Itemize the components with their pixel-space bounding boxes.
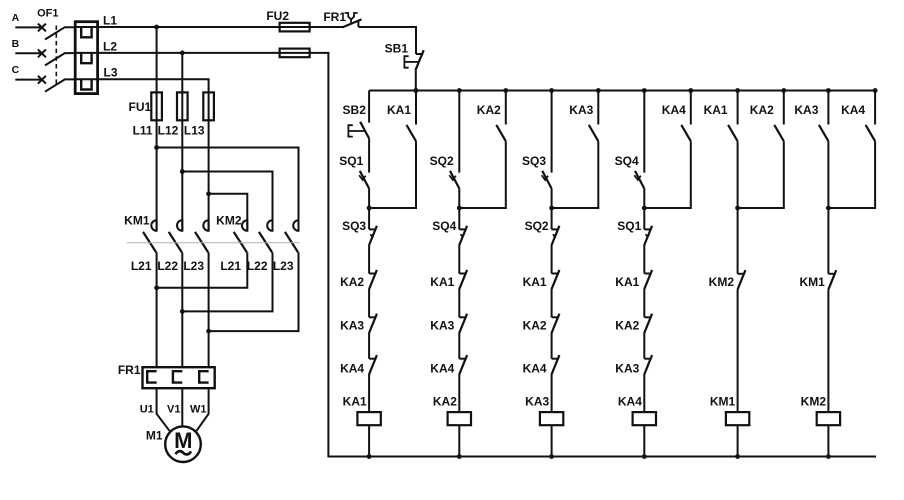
breaker OF1 mechanical linkage (dashed) <box>55 26 57 85</box>
wire phase A lead <box>15 26 41 28</box>
wire branch 2 left top <box>458 91 460 173</box>
relay contact KA1 (NO) <box>407 125 417 141</box>
wire branch 6 to coil <box>827 289 829 412</box>
svg-text:KA1: KA1 <box>704 103 728 117</box>
coil KM2 <box>817 412 840 425</box>
svg-text:FU1: FU1 <box>129 100 152 114</box>
wire SB2 to SQ1 <box>368 138 370 172</box>
relay contact KA2 (NC) <box>644 316 651 318</box>
svg-text:KA2: KA2 <box>433 395 457 409</box>
thermal relay FR1 heater element 1 <box>147 371 156 382</box>
breaker OF1 pole B blade <box>45 53 76 65</box>
relay contact KA2 (NO) <box>774 125 784 141</box>
junction control bus at x=690.8 <box>688 88 693 93</box>
limit switch SQ1 (NO) <box>360 171 369 189</box>
junction control bus at x=875.1 <box>873 88 878 93</box>
limit switch SQ2 (NC) <box>552 228 559 230</box>
relay contact KA3 (NC) <box>644 358 651 360</box>
svg-text:L23: L23 <box>273 259 294 273</box>
svg-text:KM2: KM2 <box>801 395 827 409</box>
motor M1 <box>165 426 201 462</box>
junction SB1 / control bus <box>413 88 418 93</box>
wire branch 3 left top <box>551 91 553 173</box>
wire branch 3 merge <box>552 207 600 209</box>
node branch 4 merge junction <box>642 206 647 211</box>
svg-text:KA1: KA1 <box>343 395 367 409</box>
svg-text:SB2: SB2 <box>343 103 367 117</box>
wire branch 4 to KA2 <box>643 289 645 318</box>
contactor contact KM2 (NC interlock) <box>738 273 745 275</box>
wire branch 4 merge <box>644 207 692 209</box>
wire branch 6 merge <box>828 207 876 209</box>
svg-text:L3: L3 <box>103 66 117 80</box>
junction branch 6 bottom <box>826 454 831 459</box>
svg-text:M1: M1 <box>146 429 163 443</box>
svg-text:KA4: KA4 <box>618 395 642 409</box>
limit switch SQ4 (NO) <box>635 171 644 189</box>
wire branch top at x=690.8 <box>690 91 692 125</box>
svg-text:L11: L11 <box>133 124 153 138</box>
svg-text:L21: L21 <box>131 259 152 273</box>
wire KM1 pole 1 to FR1 <box>156 252 158 367</box>
wire L3 (breaker to drop) <box>98 78 210 80</box>
fuse FU1 pole 1 <box>151 92 162 120</box>
wire coil KA4 to bottom bus <box>643 425 645 456</box>
wire below contact <box>505 141 507 208</box>
junction L12 crossover <box>180 169 185 174</box>
relay contact KA4 (NO) <box>866 125 876 141</box>
svg-text:SQ4: SQ4 <box>615 154 639 168</box>
svg-text:KA3: KA3 <box>615 362 639 376</box>
wire L13 drop <box>208 79 210 231</box>
junction control bus at x=598.3 <box>596 88 601 93</box>
thermal relay FR1 heater element 3 <box>199 371 208 382</box>
wire below contact <box>690 141 692 208</box>
wire phase B lead <box>15 52 41 54</box>
wire KM1 pole 3 to FR1 <box>208 252 210 367</box>
svg-text:L12: L12 <box>158 124 179 138</box>
node branch 5 merge junction <box>735 206 740 211</box>
contactor KM1 main pole 3 <box>203 220 208 231</box>
wire branch 3 to KA1 <box>551 245 553 274</box>
junction control bus at x=505.8 <box>503 88 508 93</box>
svg-text:KA4: KA4 <box>662 103 686 117</box>
node branch 3 merge junction <box>549 206 554 211</box>
svg-text:FR1: FR1 <box>118 363 141 377</box>
thermal relay FR1 heater element 2 <box>173 371 182 382</box>
contactor KM2 main pole 3 <box>293 220 298 231</box>
wire branch top at x=875.1 <box>874 91 876 125</box>
wire branch top at x=505.8 <box>505 91 507 125</box>
svg-text:KA3: KA3 <box>525 395 549 409</box>
coil KA3 <box>540 412 563 425</box>
pushbutton SB2 (NO start) <box>360 122 369 139</box>
svg-text:KA1: KA1 <box>523 275 547 289</box>
wire branch 4 to KA1 <box>643 245 645 274</box>
svg-text:KA3: KA3 <box>430 318 454 332</box>
contactor KM1 main pole 2 <box>177 220 182 231</box>
wire below contact <box>783 141 785 208</box>
relay contact KA2 (NC) <box>552 316 559 318</box>
wire branch 2 to coil <box>458 374 460 412</box>
junction pole 3 merge <box>206 329 211 334</box>
wire SB2 top <box>368 91 370 123</box>
relay contact KA1 (NC) <box>644 273 651 275</box>
wire branch 1 to KA3 <box>368 289 370 318</box>
fuse FU2b on L2 <box>280 49 310 58</box>
wire U1 to motor <box>157 389 170 430</box>
wire L12 drop <box>181 53 183 231</box>
junction control bus at x=783.8 <box>781 88 786 93</box>
svg-text:L2: L2 <box>103 40 117 54</box>
wire branch 2 to SQ4 <box>458 208 460 229</box>
svg-text:KA1: KA1 <box>615 275 639 289</box>
svg-text:SQ4: SQ4 <box>432 219 456 233</box>
svg-text:V1: V1 <box>167 404 180 416</box>
svg-text:KA1: KA1 <box>387 103 411 117</box>
svg-text:L21: L21 <box>220 259 241 273</box>
wire branch 2 to KA1 <box>458 245 460 274</box>
limit switch SQ1 (NC) <box>644 228 651 230</box>
junction pole 2 merge <box>180 309 185 314</box>
relay contact KA4 (NO) <box>681 125 691 141</box>
svg-text:KA2: KA2 <box>523 318 547 332</box>
thermal relay FR1 NC contact <box>342 19 361 27</box>
wire phase C lead <box>15 79 41 81</box>
contactor KM1 main pole 1 <box>151 220 156 231</box>
wire branch 1 to KA4 <box>368 333 370 359</box>
contactor contact KM1 (NC interlock) <box>828 273 835 275</box>
wire L11 drop <box>156 27 158 231</box>
junction L1 / L11 <box>154 25 159 30</box>
contactor KM2 main pole 1 <box>242 220 247 231</box>
svg-text:KA2: KA2 <box>477 103 501 117</box>
wire branch 3 to SQ2 <box>551 208 553 229</box>
svg-text:KM2: KM2 <box>709 275 735 289</box>
breaker OF1 pole A fixed contact (x mark) <box>38 24 46 32</box>
wire branch 5 to coil <box>737 289 739 412</box>
relay contact KA2 (NC) <box>369 273 376 275</box>
junction control bus at x=737.6 <box>735 88 740 93</box>
svg-text:KA2: KA2 <box>615 318 639 332</box>
wire below contact <box>597 141 599 208</box>
svg-text:KA4: KA4 <box>523 362 547 376</box>
junction L2 / L12 <box>180 51 185 56</box>
junction branch 2 bottom <box>457 454 462 459</box>
breaker OF1 pole C blade <box>45 79 76 91</box>
svg-text:KM1: KM1 <box>124 214 150 228</box>
svg-text:KM1: KM1 <box>710 395 736 409</box>
wire L1 (breaker to FU2 and FR1) <box>98 26 343 28</box>
wire branch 1 to SQ3 <box>368 208 370 229</box>
svg-text:KA2: KA2 <box>340 275 364 289</box>
wire L11 feed to KM2 pole 3 <box>157 148 299 231</box>
relay contact KA3 (NO) <box>819 125 829 141</box>
svg-text:SQ3: SQ3 <box>342 219 366 233</box>
wire coil KA2 to bottom bus <box>458 425 460 456</box>
junction control bus at x=644.3 <box>642 88 647 93</box>
relay contact KA1 (NC) <box>552 273 559 275</box>
relay contact KA3 (NC) <box>369 316 376 318</box>
svg-text:OF1: OF1 <box>37 8 58 20</box>
wire W1 to motor <box>197 389 209 430</box>
wire V1 to motor <box>181 389 183 426</box>
junction branch 3 bottom <box>549 454 554 459</box>
wire branch 4 to KA3 <box>643 333 645 359</box>
relay contact KA4 (NC) <box>552 358 559 360</box>
relay contact KA4 (NC) <box>459 358 466 360</box>
svg-text:KA4: KA4 <box>430 362 454 376</box>
wire branch top at x=416.0 <box>415 91 417 125</box>
junction branch 5 bottom <box>735 454 740 459</box>
wire branch 4 to SQ1 <box>643 208 645 229</box>
wire L2 (breaker to control rail) <box>98 52 330 54</box>
breaker OF1 pole C fixed contact (x mark) <box>38 76 46 84</box>
limit switch SQ3 (NO) <box>542 171 551 189</box>
svg-text:U1: U1 <box>140 404 154 416</box>
wire branch 2 to KA4 <box>458 333 460 359</box>
svg-text:KA2: KA2 <box>750 103 774 117</box>
wire KM2 pole 2 merge <box>183 252 272 311</box>
svg-text:KA4: KA4 <box>340 362 364 376</box>
wire branch 6 to KM1 interlock <box>827 208 829 274</box>
wire control top bus <box>369 90 876 92</box>
wire branch top at x=737.6 <box>737 91 739 125</box>
junction L11 crossover <box>154 145 159 150</box>
svg-text:SQ1: SQ1 <box>339 154 363 168</box>
fuse FU1 pole 3 <box>203 92 214 120</box>
relay contact KA3 (NC) <box>459 316 466 318</box>
wire coil KM1 to bottom bus <box>737 425 739 456</box>
svg-text:SQ3: SQ3 <box>522 154 546 168</box>
svg-text:FU2: FU2 <box>266 9 289 23</box>
wire branch 1 merge <box>369 207 417 209</box>
junction control bus at x=828.4 <box>826 88 831 93</box>
svg-text:KA1: KA1 <box>430 275 454 289</box>
contactor linkage bar (thin) <box>127 242 300 244</box>
wire branch top at x=828.4 <box>827 91 829 125</box>
wire branch 4 to coil <box>643 374 645 412</box>
wire branch 2 merge <box>459 207 507 209</box>
junction branch 1 bottom <box>367 454 372 459</box>
coil KA2 <box>448 412 471 425</box>
wire FR1 to SB1 <box>358 27 416 54</box>
node branch 2 merge junction <box>457 206 462 211</box>
svg-text:KA3: KA3 <box>569 103 593 117</box>
svg-text:L22: L22 <box>247 259 268 273</box>
svg-text:W1: W1 <box>190 404 207 416</box>
wire below contact <box>737 141 739 208</box>
relay contact KA1 (NO) <box>728 125 738 141</box>
limit switch SQ3 (NC) <box>369 228 376 230</box>
svg-text:FR1: FR1 <box>323 10 346 24</box>
svg-text:A: A <box>12 12 20 24</box>
relay contact KA4 (NC) <box>369 358 376 360</box>
wire KM2 pole 1 merge <box>158 252 248 287</box>
wire left control rail (L2) <box>327 53 329 457</box>
coil KM1 <box>726 412 749 425</box>
svg-text:KA3: KA3 <box>340 318 364 332</box>
wire coil KA1 to bottom bus <box>368 425 370 456</box>
wire branch 4 left top <box>643 91 645 173</box>
junction pole 1 merge <box>154 285 159 290</box>
wire branch 3 to KA2 <box>551 289 553 318</box>
svg-text:L13: L13 <box>184 124 205 138</box>
junction branch 4 bottom <box>642 454 647 459</box>
relay contact KA1 (NC) <box>459 273 466 275</box>
relay contact KA3 (NO) <box>589 125 599 141</box>
breaker OF1 body <box>75 22 97 94</box>
svg-text:KM1: KM1 <box>799 275 825 289</box>
wire KM1 pole 2 to FR1 <box>181 252 183 367</box>
wire branch 5 to KM2 interlock <box>737 208 739 274</box>
svg-text:B: B <box>12 38 20 50</box>
breaker OF1 pole B fixed contact (x mark) <box>38 50 46 58</box>
limit switch SQ2 (NO) <box>450 171 459 189</box>
node branch 6 merge junction <box>826 206 831 211</box>
junction control bus at x=459.3 <box>457 88 462 93</box>
svg-text:M: M <box>174 428 192 453</box>
svg-text:L23: L23 <box>183 259 204 273</box>
wire branch 3 to coil <box>551 374 553 412</box>
wire SB1 to control bus <box>415 70 417 90</box>
wire below contact <box>874 141 876 208</box>
svg-text:C: C <box>12 64 20 76</box>
contactor KM2 main pole 2 <box>267 220 272 231</box>
wire coil KM2 to bottom bus <box>827 425 829 456</box>
wire branch top at x=783.8 <box>783 91 785 125</box>
svg-text:L1: L1 <box>103 14 117 28</box>
wire branch 3 to KA4 <box>551 333 553 359</box>
limit switch SQ4 (NC) <box>459 228 466 230</box>
wire below contact <box>415 141 417 208</box>
svg-text:KM2: KM2 <box>216 214 242 228</box>
wire branch top at x=598.3 <box>597 91 599 125</box>
wire branch 1 to KA2 <box>368 245 370 274</box>
fuse FU1 pole 2 <box>177 92 188 120</box>
junction control bus at x=416.0 <box>414 88 419 93</box>
wire control bottom bus <box>327 456 876 458</box>
junction L13 crossover <box>206 191 211 196</box>
svg-text:SQ1: SQ1 <box>617 219 641 233</box>
wire branch 1 to coil <box>368 374 370 412</box>
wire branch 5 merge <box>738 207 785 209</box>
wire L12 feed to KM2 pole 2 <box>182 172 272 231</box>
svg-text:SQ2: SQ2 <box>525 219 549 233</box>
svg-text:KA4: KA4 <box>841 103 865 117</box>
relay contact KA2 (NO) <box>496 125 506 141</box>
breaker OF1 pole A blade <box>45 27 76 39</box>
pushbutton SB1 (NC stop) <box>416 53 423 55</box>
svg-text:SQ2: SQ2 <box>430 154 454 168</box>
svg-text:SB1: SB1 <box>385 42 409 56</box>
coil KA4 <box>633 412 656 425</box>
svg-text:L22: L22 <box>157 259 178 273</box>
wire below contact <box>827 141 829 208</box>
thermal relay FR1 heater body <box>143 367 215 388</box>
node branch 1 merge junction <box>367 206 372 211</box>
coil KA1 <box>357 412 380 425</box>
junction control bus at x=551.6 <box>549 88 554 93</box>
svg-text:KA3: KA3 <box>794 103 818 117</box>
wire branch 2 to KA3 <box>458 289 460 318</box>
wire coil KA3 to bottom bus <box>551 425 553 456</box>
wire KM2 pole 3 merge <box>210 252 299 331</box>
wire L13 feed to KM2 pole 1 <box>209 194 248 231</box>
fuse FU2a on L1 <box>280 23 310 32</box>
